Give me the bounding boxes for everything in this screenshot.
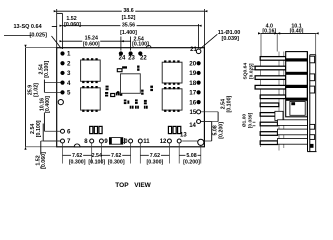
svg-text:SQ0.64: SQ0.64	[243, 63, 249, 80]
dimension 1.52 [0.060] bottom left	[40, 141, 42, 155]
extension line through pins	[259, 57, 261, 148]
svg-text:[0.025]: [0.025]	[30, 33, 48, 39]
dimension 5.08 [0.200] pins 14-13	[201, 121, 212, 123]
svg-text:[0.025]: [0.025]	[249, 63, 255, 79]
pin 21	[196, 49, 201, 54]
svg-text:4: 4	[67, 80, 71, 87]
IC U3 top-right	[162, 62, 182, 83]
svg-text:Ø1.00: Ø1.00	[242, 114, 248, 128]
svg-text:[1.02]: [1.02]	[33, 83, 39, 97]
right wall lines	[307, 52, 309, 152]
pin 15	[197, 110, 201, 114]
svg-text:[1.52]: [1.52]	[122, 15, 136, 21]
pin 14	[197, 120, 201, 124]
passive C4	[105, 92, 108, 94]
far right outline	[310, 54, 316, 56]
side pin bar 7	[260, 113, 277, 117]
passive C1	[117, 69, 122, 72]
dimension 2.54 [0.100] pins 15-14	[201, 111, 218, 113]
side pin bar 9	[260, 132, 277, 136]
svg-text:11: 11	[143, 139, 150, 145]
dimension 7.62 [0.300] pins 9-10	[101, 154, 110, 156]
extension line body left edge up	[56, 9, 58, 48]
pins 8-13 bottom row	[90, 139, 94, 143]
pins 22,23,24 top row	[119, 51, 123, 55]
svg-text:14: 14	[189, 123, 196, 129]
dimension 5.08 [0.200] pin 13 to edge	[179, 154, 185, 156]
leader to pin 21	[200, 34, 217, 49]
svg-text:3: 3	[67, 70, 71, 77]
pins 20-16 right column	[197, 61, 201, 65]
svg-text:[0.100]: [0.100]	[44, 61, 50, 78]
svg-text:[0.300]: [0.300]	[69, 159, 86, 165]
svg-text:23: 23	[128, 56, 135, 62]
svg-text:1: 1	[67, 51, 71, 58]
IC U2 bottom-left	[81, 88, 101, 110]
svg-text:15.24: 15.24	[85, 36, 98, 42]
svg-text:[0.300]: [0.300]	[147, 159, 164, 165]
side pin bar 3	[255, 76, 286, 80]
svg-text:[0.060]: [0.060]	[64, 22, 81, 28]
svg-text:VIEW: VIEW	[134, 182, 151, 189]
side dim lines	[261, 32, 277, 34]
svg-text:21: 21	[190, 47, 197, 53]
unnumbered hole left	[58, 100, 63, 105]
svg-text:7.62: 7.62	[111, 153, 121, 159]
extension line pin23 up	[130, 37, 132, 51]
svg-text:[0.200]: [0.200]	[183, 159, 200, 165]
svg-text:[1.400]: [1.400]	[120, 30, 137, 36]
passive R2	[116, 92, 118, 95]
svg-text:2: 2	[67, 60, 71, 67]
passive right of U5	[150, 86, 153, 88]
svg-text:16: 16	[189, 99, 196, 106]
connector pads group left	[90, 126, 93, 133]
svg-text:5: 5	[67, 90, 71, 97]
svg-text:TOP: TOP	[115, 182, 129, 189]
svg-text:38.6: 38.6	[123, 8, 133, 14]
leader to pin 1	[52, 36, 62, 49]
svg-text:[0.200]: [0.200]	[218, 122, 224, 139]
svg-text:[0.400]: [0.400]	[45, 96, 51, 113]
svg-text:[0.100]: [0.100]	[88, 159, 105, 165]
svg-text:[0.600]: [0.600]	[83, 42, 100, 48]
side pin bar 4	[255, 85, 286, 89]
svg-text:35.56: 35.56	[122, 22, 135, 28]
svg-text:[0.300]: [0.300]	[108, 159, 125, 165]
dimension 25.9 [1.02] overall height	[25, 48, 27, 147]
IC U1 top-left	[81, 60, 101, 81]
U5 corner pads	[117, 91, 119, 93]
right tabs	[310, 56, 315, 63]
bottom extension lines	[62, 143, 64, 163]
svg-text:5.08: 5.08	[186, 153, 196, 159]
dimension 7.62 [0.300] pins 7-8	[63, 154, 72, 156]
module body outline (top view)	[57, 48, 205, 147]
side pin bar 2	[255, 66, 286, 70]
svg-text:24: 24	[119, 56, 126, 62]
dimension 2.54 [0.100] top (pins 24-23)	[121, 40, 131, 42]
passive C2	[137, 66, 139, 68]
small box at pin7	[275, 111, 283, 120]
dimension 15.24 [0.600]	[63, 40, 83, 42]
extension line body right edge up	[203, 9, 205, 48]
svg-text:19: 19	[189, 70, 196, 77]
svg-text:15: 15	[190, 110, 197, 116]
dimension 35.56 [1.400]	[63, 25, 121, 27]
side pin bar 5	[260, 95, 286, 99]
svg-text:12: 12	[160, 139, 167, 145]
IC U5 center	[121, 74, 141, 94]
svg-text:[0.100]: [0.100]	[36, 120, 42, 137]
inner box lower	[290, 101, 305, 115]
svg-text:22: 22	[140, 56, 147, 62]
svg-text:7.62: 7.62	[150, 153, 160, 159]
passive C3	[106, 86, 109, 88]
pin 7	[61, 139, 65, 143]
index notch bottom edge	[74, 144, 80, 147]
svg-text:[0.039]: [0.039]	[222, 36, 240, 42]
passive cluster bottom center	[124, 100, 127, 102]
extension line pin24 up	[120, 37, 122, 51]
extension line pin1 column up	[62, 14, 64, 50]
svg-text:17: 17	[189, 90, 196, 97]
svg-text:[0.100]: [0.100]	[132, 42, 149, 48]
svg-text:6: 6	[67, 128, 71, 135]
side pin bar 6	[260, 103, 279, 107]
lower slabs	[278, 120, 308, 126]
passive R1	[111, 94, 115, 97]
svg-text:13-SQ 0.64: 13-SQ 0.64	[14, 24, 43, 30]
side pin bar 10	[260, 141, 277, 145]
dimension 7.62 [0.300] pins 11-12	[140, 154, 149, 156]
index notch top edge	[146, 45, 151, 47]
side pin bar 1	[260, 57, 286, 61]
passive component between pins 9 and 10	[109, 138, 122, 145]
side pin bar 8	[260, 122, 277, 126]
svg-text:[0.060]: [0.060]	[41, 152, 47, 169]
pcb edge lines	[278, 52, 280, 151]
svg-text:18: 18	[189, 80, 196, 87]
connector pads group right	[168, 126, 171, 133]
svg-text:7: 7	[67, 138, 71, 145]
pins 1-5 (filled squares pins)	[60, 51, 64, 55]
IC U4 bottom-right	[162, 89, 182, 110]
dimension 38.6 [1.52]	[57, 10, 122, 12]
side body stack	[286, 52, 308, 117]
svg-text:2.54: 2.54	[92, 153, 102, 159]
svg-text:7.62: 7.62	[72, 153, 82, 159]
svg-text:20: 20	[189, 60, 196, 67]
pin 6	[61, 129, 65, 133]
corner hole bottom right	[198, 139, 204, 145]
extension line pin col right up	[198, 24, 200, 48]
svg-text:[0.100]: [0.100]	[227, 95, 233, 112]
